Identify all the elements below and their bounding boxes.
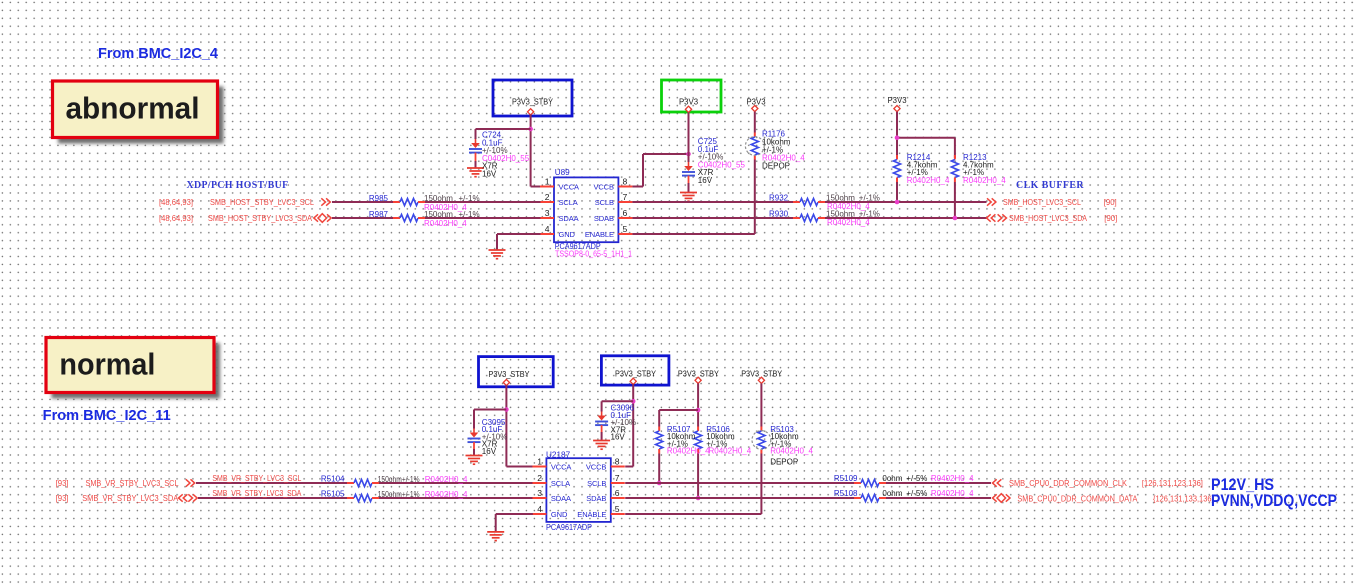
svg-text:SMB_HOST_LVC3_SCL: SMB_HOST_LVC3_SCL: [1003, 198, 1082, 207]
svg-text:150ohm: 150ohm: [424, 210, 453, 219]
svg-text:3: 3: [545, 208, 550, 218]
svg-text:+/-5%: +/-5%: [906, 489, 927, 498]
svg-text:SDAA: SDAA: [551, 494, 571, 503]
svg-text:R0402H0_4: R0402H0_4: [667, 447, 710, 456]
svg-text:16V: 16V: [698, 176, 713, 185]
svg-text:16V: 16V: [482, 447, 497, 456]
svg-text:DEPOP: DEPOP: [770, 457, 798, 466]
svg-text:4: 4: [537, 504, 542, 514]
svg-text:SCLB: SCLB: [595, 198, 614, 207]
svg-text:2: 2: [537, 473, 542, 483]
svg-text:ENABLE: ENABLE: [585, 230, 614, 239]
svg-text:P3V3: P3V3: [887, 96, 906, 105]
svg-text:150ohm+/-1%: 150ohm+/-1%: [378, 490, 420, 499]
svg-text:PVNN,VDDQ,VCCP: PVNN,VDDQ,VCCP: [1211, 491, 1337, 510]
svg-text:{126,131,133,136}: {126,131,133,136}: [1153, 495, 1214, 504]
svg-text:From BMC_I2C_4: From BMC_I2C_4: [98, 46, 218, 62]
svg-text:16V: 16V: [482, 170, 497, 179]
svg-text:VCCB: VCCB: [593, 183, 614, 192]
svg-text:5: 5: [615, 504, 620, 514]
svg-text:SMB_HOST_STBY_LVC3_SCL: SMB_HOST_STBY_LVC3_SCL: [210, 198, 315, 207]
svg-text:[126,131,123,136]: [126,131,123,136]: [1142, 479, 1203, 488]
svg-text:R0402H0_4: R0402H0_4: [931, 489, 974, 498]
svg-text:R0402H0_4: R0402H0_4: [907, 176, 950, 185]
svg-text:[93]: [93]: [56, 479, 69, 488]
svg-text:7: 7: [615, 473, 620, 483]
svg-text:[48,64,93]: [48,64,93]: [159, 214, 193, 223]
svg-text:+/-5%: +/-5%: [906, 474, 927, 483]
svg-text:R0402H0_4: R0402H0_4: [827, 218, 870, 227]
svg-text:4: 4: [545, 224, 550, 234]
svg-text:From BMC_I2C_11: From BMC_I2C_11: [43, 408, 171, 424]
svg-text:R0402H0_4: R0402H0_4: [425, 475, 468, 484]
svg-text:R5105: R5105: [321, 490, 345, 499]
svg-text:TSSOP8-0_65-5_1H1_1: TSSOP8-0_65-5_1H1_1: [555, 249, 632, 258]
svg-text:R5104: R5104: [321, 475, 345, 484]
svg-text:SMB_VR_STBY_LVC3_SDA: SMB_VR_STBY_LVC3_SDA: [212, 489, 302, 498]
svg-text:P3V3: P3V3: [679, 98, 698, 107]
svg-text:DEPOP: DEPOP: [762, 162, 790, 171]
svg-text:8: 8: [623, 176, 628, 186]
svg-text:SCLA: SCLA: [559, 198, 578, 207]
svg-text:SDAA: SDAA: [559, 214, 579, 223]
svg-text:R0402H0_4: R0402H0_4: [709, 447, 752, 456]
svg-text:SMB_HOST_STBY_LVC3_SDA: SMB_HOST_STBY_LVC3_SDA: [208, 214, 313, 223]
svg-text:P3V3_STBY: P3V3_STBY: [489, 370, 531, 379]
svg-text:[90]: [90]: [1104, 214, 1117, 223]
svg-text:R987: R987: [369, 210, 389, 219]
svg-text:SMB_VR_STBY_LVC3_SCL: SMB_VR_STBY_LVC3_SCL: [86, 479, 180, 488]
svg-text:SDAB: SDAB: [586, 494, 606, 503]
svg-text:R0402H0_4: R0402H0_4: [770, 447, 813, 456]
svg-text:+/-1%: +/-1%: [459, 194, 480, 203]
svg-text:ENABLE: ENABLE: [577, 510, 606, 519]
svg-text:150ohm: 150ohm: [424, 194, 453, 203]
svg-text:R985: R985: [369, 194, 389, 203]
svg-text:5: 5: [623, 224, 628, 234]
svg-text:SCLA: SCLA: [551, 479, 570, 488]
svg-text:R0402H0_4: R0402H0_4: [424, 219, 467, 228]
svg-text:R930: R930: [769, 210, 789, 219]
svg-text:GND: GND: [551, 510, 568, 519]
svg-text:R0402H0_4: R0402H0_4: [963, 176, 1006, 185]
svg-text:1: 1: [545, 176, 550, 186]
svg-text:[90]: [90]: [1104, 198, 1117, 207]
svg-text:CLK BUFFER: CLK BUFFER: [1016, 179, 1084, 191]
svg-text:150ohm+/-1%: 150ohm+/-1%: [378, 475, 420, 484]
svg-text:VCCA: VCCA: [559, 183, 580, 192]
svg-text:2: 2: [545, 192, 550, 202]
svg-text:normal: normal: [59, 347, 155, 382]
svg-text:P3V3: P3V3: [746, 98, 765, 107]
svg-text:SMB_VR_STBY_LVC3_SCL: SMB_VR_STBY_LVC3_SCL: [212, 474, 302, 483]
svg-text:6: 6: [615, 488, 620, 498]
svg-text:P3V3_STBY: P3V3_STBY: [512, 98, 554, 107]
svg-text:SMB_HOST_LVC3_SDA: SMB_HOST_LVC3_SDA: [1009, 214, 1088, 223]
svg-text:SMB_CPU0_DDR_COMMON_CLK: SMB_CPU0_DDR_COMMON_CLK: [1009, 479, 1128, 488]
svg-text:SCLB: SCLB: [587, 479, 606, 488]
svg-text:R932: R932: [769, 194, 789, 203]
svg-text:GND: GND: [559, 230, 576, 239]
svg-text:[48,64,93]: [48,64,93]: [159, 198, 193, 207]
svg-text:0ohm: 0ohm: [882, 474, 902, 483]
svg-text:R0402H0_4: R0402H0_4: [931, 474, 974, 483]
svg-text:SDAB: SDAB: [594, 214, 614, 223]
svg-text:1: 1: [537, 456, 542, 466]
svg-text:+/-1%: +/-1%: [459, 210, 480, 219]
svg-text:R5109: R5109: [834, 474, 858, 483]
svg-text:abnormal: abnormal: [66, 91, 200, 126]
svg-text:0ohm: 0ohm: [882, 489, 902, 498]
svg-text:U89: U89: [555, 168, 570, 177]
svg-text:7: 7: [623, 192, 628, 202]
svg-text:P3V3_STBY: P3V3_STBY: [615, 370, 657, 379]
svg-text:8: 8: [615, 456, 620, 466]
svg-text:PCA9617ADP: PCA9617ADP: [546, 523, 592, 532]
svg-text:6: 6: [623, 208, 628, 218]
svg-text:XDP/PCH HOST/BUF: XDP/PCH HOST/BUF: [187, 179, 289, 191]
svg-text:R0402H0_4: R0402H0_4: [425, 490, 468, 499]
svg-text:VCCB: VCCB: [586, 463, 607, 472]
svg-text:SMB_VR_STBY_LVC3_SDA: SMB_VR_STBY_LVC3_SDA: [82, 494, 179, 503]
svg-text:R5108: R5108: [834, 489, 858, 498]
svg-text:[93]: [93]: [56, 494, 69, 503]
svg-text:16V: 16V: [611, 433, 626, 442]
svg-text:VCCA: VCCA: [551, 463, 572, 472]
svg-text:3: 3: [537, 488, 542, 498]
svg-text:SMB_CPU0_DDR_COMMON_DATA: SMB_CPU0_DDR_COMMON_DATA: [1017, 495, 1138, 504]
